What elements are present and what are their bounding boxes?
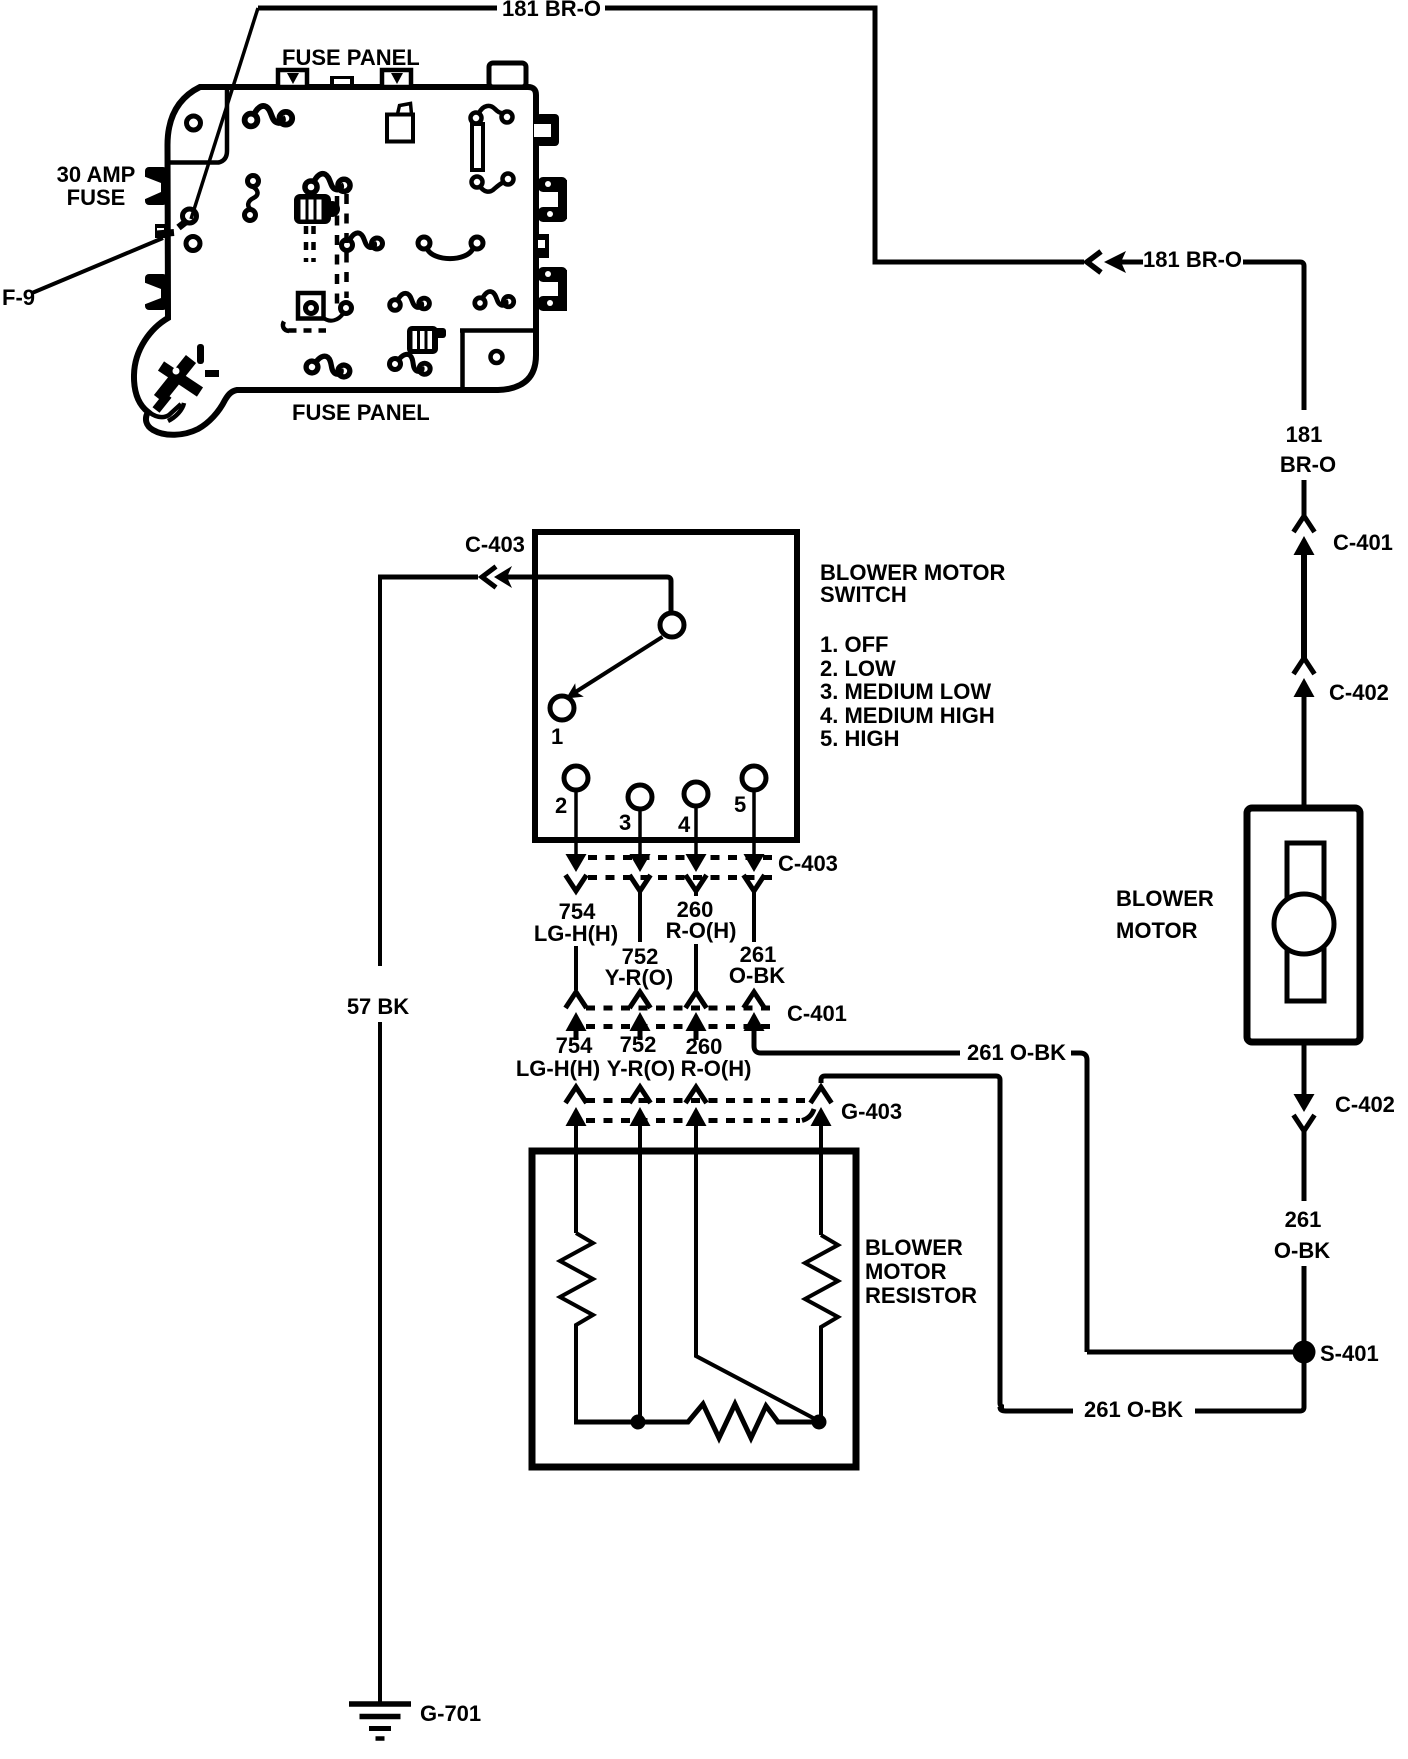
svg-text:5. HIGH: 5. HIGH bbox=[820, 726, 899, 751]
svg-text:C-401: C-401 bbox=[1333, 530, 1393, 555]
connector C-403 dashed rows bbox=[588, 855, 776, 860]
svg-text:C-403: C-403 bbox=[465, 532, 525, 557]
svg-text:BR-O: BR-O bbox=[1280, 452, 1336, 477]
connector C-401 pin arrow x=696 bbox=[686, 992, 707, 1031]
fuse panel top tab 1 bbox=[278, 70, 307, 87]
svg-text:BLOWER: BLOWER bbox=[865, 1235, 963, 1260]
connector C-403 pin arrow x=754 bbox=[744, 854, 765, 891]
connector C-401 pin arrow x=576 bbox=[566, 992, 587, 1031]
wire 752 segment bbox=[638, 891, 642, 942]
leader line F-9 bbox=[32, 238, 163, 293]
switch contact 5 bbox=[742, 766, 766, 790]
fuse clip above fuse block 1 bbox=[305, 174, 350, 193]
junction dot left bbox=[631, 1415, 646, 1430]
bottom-left bowtie clamp bbox=[156, 359, 200, 410]
resistor wire 3 with diagonal bbox=[696, 1154, 817, 1420]
connector C-403 pin arrow x=576 bbox=[566, 854, 587, 891]
connector C-402 right bbox=[1294, 658, 1315, 697]
svg-text:FUSE PANEL: FUSE PANEL bbox=[282, 45, 420, 70]
svg-text:O-BK: O-BK bbox=[729, 963, 785, 988]
wire to connector C-401 bbox=[1302, 480, 1307, 516]
wire 261 O-BK from C-401 pin 4 bbox=[754, 1030, 960, 1053]
svg-text:3: 3 bbox=[619, 810, 631, 835]
fuse panel corner notch bottom-right bbox=[460, 331, 465, 389]
wire 261 O-BK into splice bbox=[1087, 1350, 1295, 1355]
svg-text:G-403: G-403 bbox=[841, 1099, 902, 1124]
dashed link short pair bbox=[304, 226, 309, 262]
svg-text:181 BR-O: 181 BR-O bbox=[502, 0, 601, 21]
svg-text:261 O-BK: 261 O-BK bbox=[967, 1040, 1066, 1065]
fuse panel left middle tab bbox=[155, 224, 167, 238]
fuse clip lower right bbox=[475, 292, 514, 309]
svg-text:4. MEDIUM HIGH: 4. MEDIUM HIGH bbox=[820, 703, 995, 728]
svg-text:1. OFF: 1. OFF bbox=[820, 632, 888, 657]
connector G-403 dashed rows bbox=[586, 1098, 812, 1103]
connector C-401 pin arrow x=640 bbox=[630, 992, 651, 1031]
svg-text:181: 181 bbox=[1286, 422, 1323, 447]
svg-text:2. LOW: 2. LOW bbox=[820, 656, 896, 681]
fuse panel top tab 3 bbox=[382, 70, 411, 87]
connector C-401 right bbox=[1294, 516, 1315, 555]
splice S-401 bbox=[1293, 1341, 1316, 1364]
fuse clip center bbox=[342, 233, 383, 251]
svg-text:2: 2 bbox=[555, 793, 567, 818]
C-401 arrow stems bbox=[574, 1028, 579, 1040]
connector arrows 181 BR-O (in-line) bbox=[1087, 251, 1143, 273]
connector G-403 pin arrow x=640 bbox=[630, 1087, 651, 1126]
wire pin 4 bbox=[694, 806, 698, 855]
wire down to splice S-401 bbox=[1302, 1266, 1307, 1352]
svg-text:S-401: S-401 bbox=[1320, 1341, 1379, 1366]
svg-text:RESISTOR: RESISTOR bbox=[865, 1283, 977, 1308]
curl terminal of dashed link bbox=[341, 303, 352, 314]
fuse panel outline bbox=[134, 87, 536, 435]
svg-text:57 BK: 57 BK bbox=[347, 994, 409, 1019]
svg-text:C-402: C-402 bbox=[1329, 680, 1389, 705]
blower motor armature bbox=[1287, 843, 1324, 1001]
connector C-403 pin arrow x=640 bbox=[630, 854, 651, 891]
ground G-701 bbox=[349, 1704, 411, 1739]
switch wiper pivot bbox=[660, 613, 684, 637]
blower motor resistor box bbox=[532, 1151, 856, 1467]
fuse panel top tab 4 bbox=[489, 63, 526, 87]
wire 57 BK bbox=[378, 575, 382, 967]
svg-text:MOTOR: MOTOR bbox=[1116, 918, 1198, 943]
blower motor switch box bbox=[535, 532, 797, 840]
fuse panel right tab A bbox=[534, 114, 559, 146]
fuse block 1 (hatched) bbox=[294, 194, 340, 224]
dashed link bottom L bbox=[289, 328, 327, 333]
connector G-403 pin arrow x=696 bbox=[686, 1087, 707, 1126]
svg-text:Y-R(O): Y-R(O) bbox=[607, 1056, 675, 1081]
switch wiper arrowhead bbox=[566, 683, 584, 698]
wire pin 5 bbox=[752, 790, 756, 855]
wire 261 O-BK hook down bbox=[1071, 1053, 1087, 1352]
svg-text:SWITCH: SWITCH bbox=[820, 582, 907, 607]
wire 754 segment bbox=[574, 946, 578, 990]
fuse panel left tab 2 bbox=[143, 274, 167, 310]
fuse panel corner notch top-left bbox=[168, 88, 227, 163]
svg-text:C-403: C-403 bbox=[778, 851, 838, 876]
wire between C-401 and C-402 bbox=[1301, 553, 1307, 658]
fuse panel left tab 1 bbox=[143, 167, 167, 205]
leader line to wire 181 bbox=[191, 8, 258, 219]
svg-text:R-O(H): R-O(H) bbox=[681, 1056, 752, 1081]
svg-text:C-401: C-401 bbox=[787, 1001, 847, 1026]
svg-text:BLOWER: BLOWER bbox=[1116, 886, 1214, 911]
connector G-403 return arrow bbox=[811, 1087, 832, 1126]
fuse clip lower mid-left bbox=[390, 293, 430, 310]
rivet hole bottom-right bbox=[491, 351, 503, 363]
junction dot right bbox=[812, 1415, 827, 1430]
connector C-403 pin arrow x=696 bbox=[686, 854, 707, 891]
fuse panel right clip B bbox=[538, 177, 567, 222]
wire 261 O-BK from splice down-left bbox=[1195, 1409, 1300, 1414]
wire 260 segment bbox=[694, 891, 698, 896]
fuse clip bottom center-right bbox=[388, 351, 432, 377]
wire 181 BR-O vertical drop bbox=[873, 6, 878, 263]
resistor wire 2 bbox=[638, 1154, 642, 1422]
svg-text:261 O-BK: 261 O-BK bbox=[1084, 1397, 1183, 1422]
svg-text:LG-H(H): LG-H(H) bbox=[516, 1056, 600, 1081]
svg-text:181 BR-O: 181 BR-O bbox=[1143, 247, 1242, 272]
vertical fuse clip S bbox=[245, 176, 259, 221]
svg-text:FUSE: FUSE bbox=[67, 185, 126, 210]
wire 181 BR-O top horizontal bbox=[258, 6, 497, 11]
switch contact 2 bbox=[564, 766, 588, 790]
blower motor case bbox=[1247, 808, 1360, 1042]
breaker square with rivet bbox=[298, 293, 344, 321]
smile jumper link bbox=[418, 237, 483, 259]
30 amp fuse element F-9 bbox=[157, 209, 200, 251]
exclamation tick marks bbox=[197, 344, 219, 377]
fuse panel right middle tab bbox=[536, 234, 549, 258]
wire 181 BR-O corner down right side bbox=[1243, 262, 1304, 410]
dashed link long pair bbox=[335, 196, 340, 310]
wire pin 3 bbox=[638, 809, 642, 855]
vertical fuse link with curls bbox=[471, 106, 514, 192]
svg-text:754: 754 bbox=[556, 1033, 593, 1058]
svg-text:G-701: G-701 bbox=[420, 1701, 481, 1726]
connector C-401 dashed rows bbox=[586, 1006, 776, 1011]
svg-text:FUSE PANEL: FUSE PANEL bbox=[292, 400, 430, 425]
fuse panel right clip C bbox=[538, 267, 567, 311]
switch contact 3 bbox=[628, 785, 652, 809]
svg-text:LG-H(H): LG-H(H) bbox=[534, 921, 618, 946]
svg-text:4: 4 bbox=[678, 812, 691, 837]
svg-text:5: 5 bbox=[734, 792, 746, 817]
fuse clip bottom center bbox=[305, 353, 351, 379]
switch wiper arm bbox=[574, 637, 663, 693]
fuse clip 1 bbox=[245, 106, 293, 126]
fuse panel top tab 2 bbox=[330, 76, 354, 87]
svg-text:30 AMP: 30 AMP bbox=[57, 162, 136, 187]
rivet hole top-left bbox=[187, 116, 201, 130]
bottom-left cutout claw bbox=[148, 404, 181, 417]
wire from switch wiper to C-403 bbox=[380, 575, 478, 580]
wire 261 segment bbox=[752, 891, 756, 942]
svg-text:3. MEDIUM LOW: 3. MEDIUM LOW bbox=[820, 679, 991, 704]
svg-text:O-BK: O-BK bbox=[1274, 1238, 1330, 1263]
wire tails into resistor bbox=[574, 1124, 578, 1154]
wire pin 2 bbox=[574, 790, 578, 855]
switch contact 4 bbox=[684, 782, 708, 806]
svg-text:R-O(H): R-O(H) bbox=[666, 918, 737, 943]
svg-text:MOTOR: MOTOR bbox=[865, 1259, 947, 1284]
svg-text:Y-R(O): Y-R(O) bbox=[605, 965, 673, 990]
blower motor rotor circle bbox=[1274, 894, 1334, 954]
wire 261 O-BK right side bbox=[1302, 1131, 1307, 1201]
wire 181 BR-O horizontal to connector bbox=[873, 260, 1085, 265]
resistor wire 4 with element bbox=[819, 1154, 823, 1235]
wire below blower motor bbox=[1302, 1042, 1307, 1094]
fuse block 2 (hatched) bbox=[407, 326, 446, 354]
svg-text:261: 261 bbox=[1285, 1207, 1322, 1232]
svg-text:C-402: C-402 bbox=[1335, 1092, 1395, 1117]
connector C-403 switch feed (in-line arrows) bbox=[482, 566, 512, 588]
svg-text:1: 1 bbox=[551, 724, 563, 749]
wire G-403 return to S-401 bbox=[821, 1076, 1004, 1407]
connector G-403 pin arrow x=576 bbox=[566, 1087, 587, 1126]
connector C-402 below motor bbox=[1294, 1094, 1315, 1131]
svg-text:F-9: F-9 bbox=[2, 285, 35, 310]
switch contact 1 bbox=[550, 696, 574, 720]
svg-text:752: 752 bbox=[620, 1032, 657, 1057]
wire into blower motor bbox=[1302, 695, 1307, 808]
relay square with lid bbox=[387, 104, 413, 142]
connector C-401 pin arrow x=754 bbox=[744, 992, 765, 1031]
resistor wire 1 with element bbox=[574, 1154, 578, 1233]
resistor bottom element bbox=[637, 1404, 819, 1438]
